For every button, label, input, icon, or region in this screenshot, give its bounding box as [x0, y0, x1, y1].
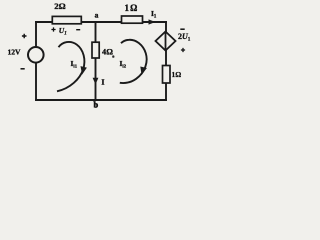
svg-text:a: a — [95, 11, 99, 20]
current arrow I — [93, 78, 105, 87]
svg-text:1Ω: 1Ω — [124, 3, 138, 13]
wire node a stub — [95, 22, 97, 100]
svg-text:1Ω: 1Ω — [172, 70, 182, 79]
mesh current Il2 arc — [120, 40, 147, 83]
resistor R3 1ohm top — [122, 3, 143, 23]
current arrow I1 — [149, 9, 157, 24]
wire top — [36, 21, 166, 23]
voltage source V1 12V — [7, 34, 43, 69]
svg-text:2Ω: 2Ω — [54, 1, 65, 11]
wire bottom — [36, 99, 166, 101]
wire left — [35, 22, 37, 100]
svg-text:I: I — [102, 78, 105, 87]
svg-text:4Ω: 4Ω — [102, 47, 113, 56]
resistor R2 4ohm — [92, 42, 113, 58]
resistor R1 2ohm — [52, 1, 81, 24]
node b — [94, 101, 99, 110]
svg-text:12V: 12V — [7, 47, 21, 56]
dependent source 2U1 diamond — [156, 29, 191, 52]
ink speck — [112, 55, 114, 57]
resistor R4 1ohm bottom — [163, 66, 182, 84]
label U1 — [51, 26, 80, 36]
mesh current Il1 arc — [57, 42, 87, 91]
node a — [95, 11, 99, 20]
svg-text:b: b — [94, 101, 99, 110]
wire right — [165, 22, 167, 100]
